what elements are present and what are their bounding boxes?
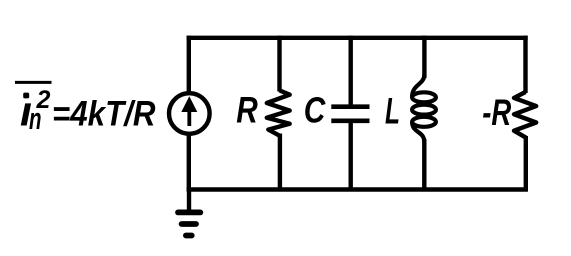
wire current-source bottom lead <box>187 134 191 192</box>
svg-text:-R: -R <box>482 92 511 133</box>
svg-text:R: R <box>236 90 258 131</box>
wire bottom rail <box>187 187 528 191</box>
wire capacitor C top lead <box>349 36 353 107</box>
svg-text:L: L <box>385 91 400 132</box>
wire inductor L bottom lead <box>422 139 426 192</box>
svg-text:2: 2 <box>36 86 51 114</box>
wire inductor L top lead <box>422 36 426 78</box>
resistor -R <box>514 92 536 138</box>
inductor L <box>412 75 436 143</box>
wire current-source top lead <box>187 36 191 94</box>
svg-text:=4kT/R: =4kT/R <box>52 94 156 133</box>
value label i_n^2 = 4kT/R <box>15 82 156 136</box>
wire resistor R bottom lead <box>278 134 282 192</box>
wire negative resistor bottom lead <box>524 136 528 192</box>
wire negative resistor top lead <box>523 36 527 93</box>
wire resistor R top lead <box>277 36 281 92</box>
ground <box>178 190 200 236</box>
current source I1 <box>169 93 210 134</box>
wire capacitor C bottom lead <box>349 121 353 192</box>
resistor R <box>267 90 290 135</box>
wire top rail <box>187 36 528 40</box>
svg-text:C: C <box>304 90 326 131</box>
capacitor C <box>331 107 369 121</box>
